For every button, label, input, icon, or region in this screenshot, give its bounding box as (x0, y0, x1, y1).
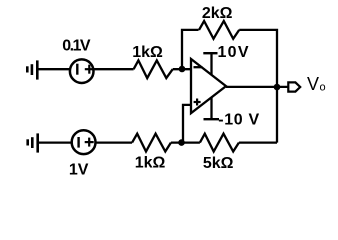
svg-text:2kΩ: 2kΩ (202, 5, 233, 22)
svg-text:1kΩ: 1kΩ (135, 155, 166, 172)
svg-text:5kΩ: 5kΩ (203, 155, 234, 172)
svg-text:-10 V: -10 V (218, 112, 259, 129)
svg-text:1V: 1V (69, 161, 89, 178)
svg-text:V: V (307, 74, 319, 94)
svg-text:o: o (320, 82, 326, 94)
svg-text:0.1V: 0.1V (62, 38, 91, 55)
svg-text:1kΩ: 1kΩ (132, 44, 163, 61)
svg-text:10V: 10V (218, 44, 249, 61)
